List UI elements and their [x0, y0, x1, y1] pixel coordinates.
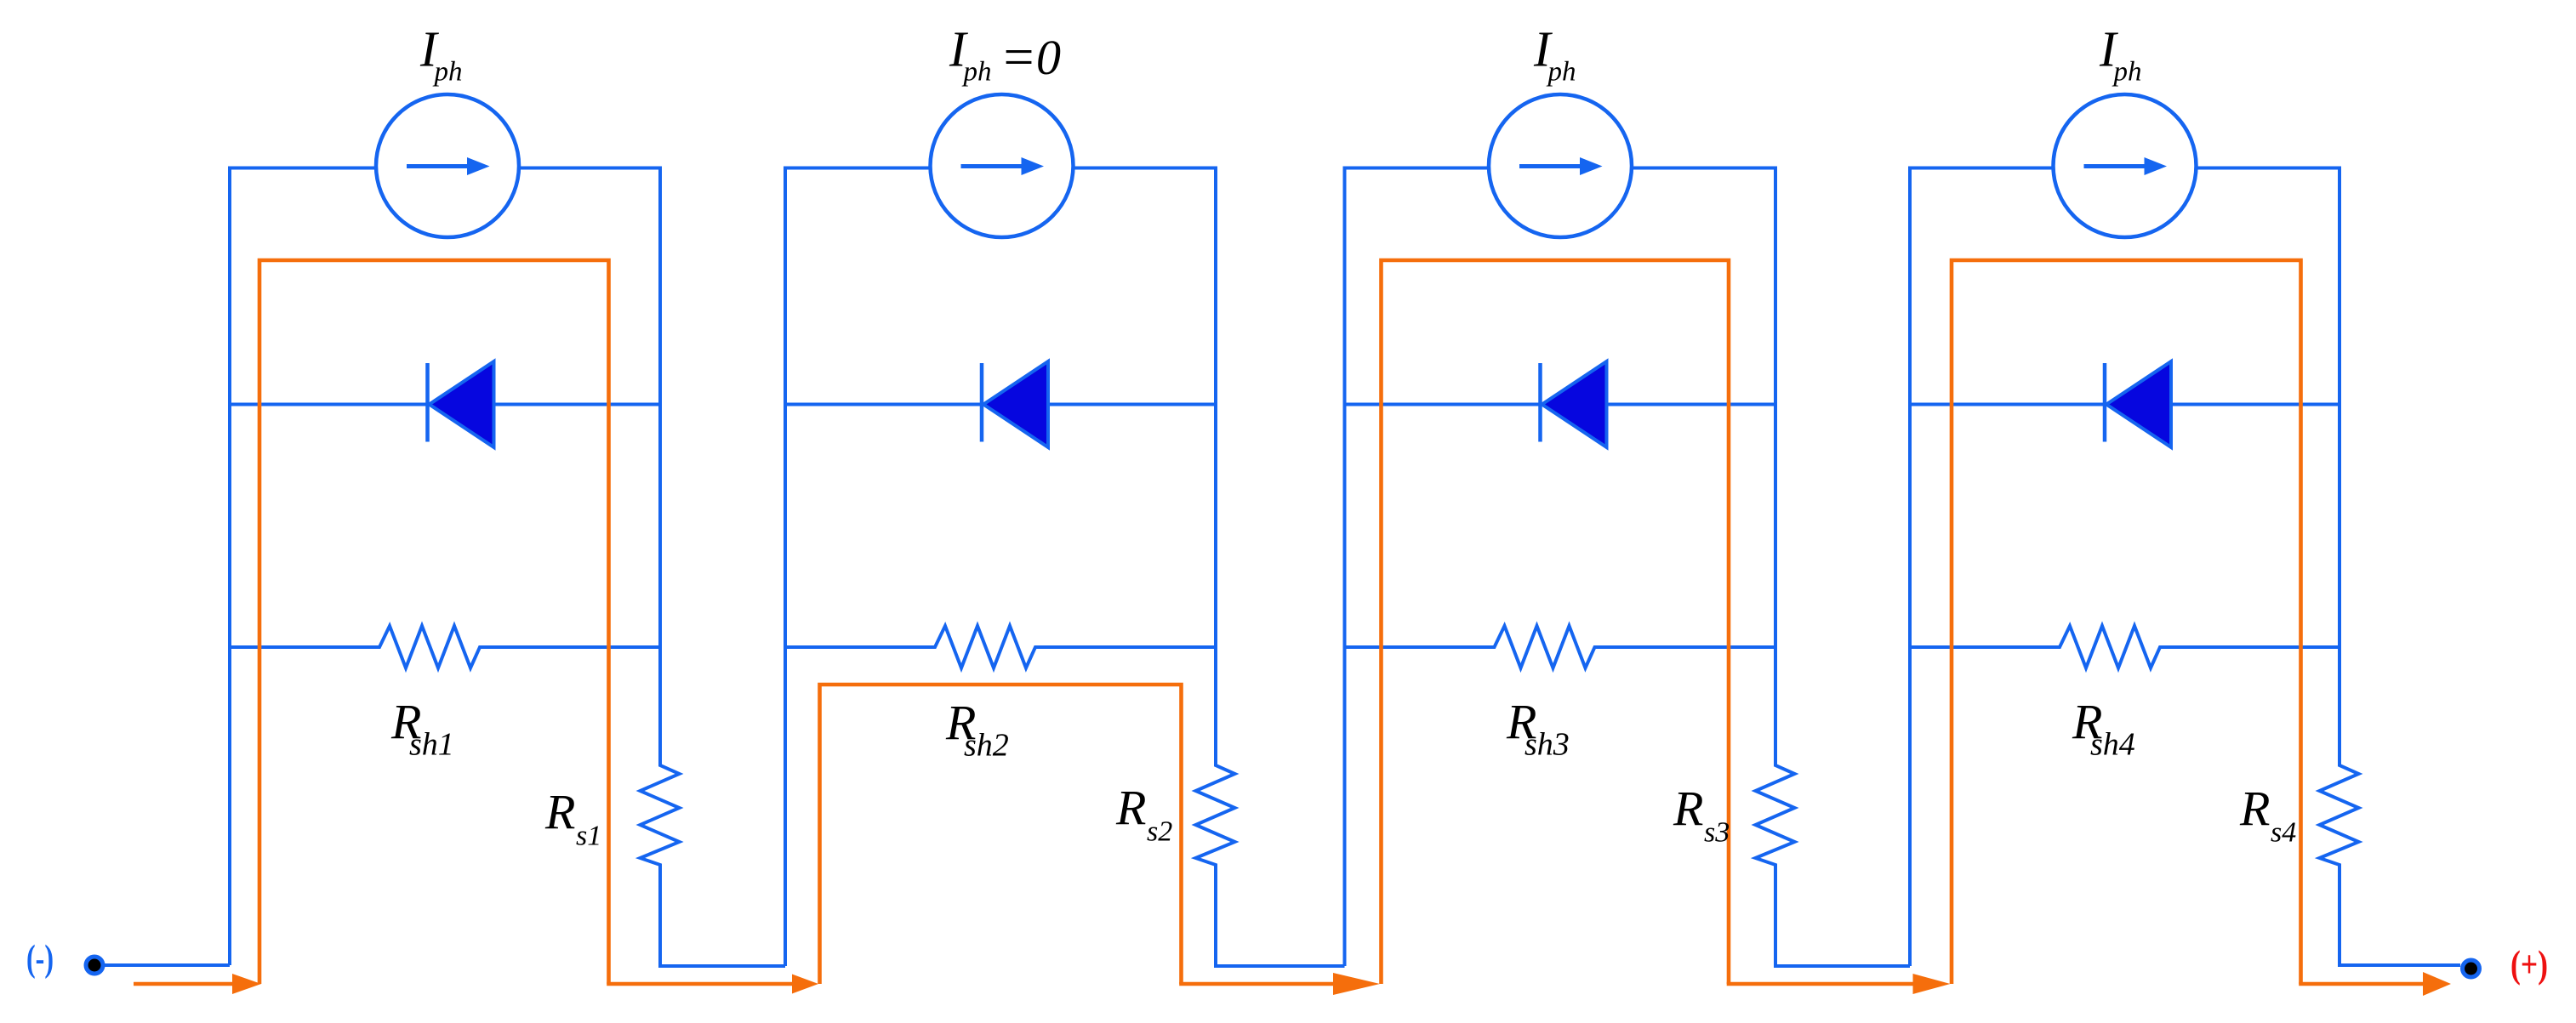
svg-text:=: =: [1000, 26, 1036, 87]
svg-text:R: R: [1115, 781, 1146, 836]
svg-text:R: R: [544, 785, 575, 840]
svg-text:(-): (-): [26, 937, 54, 979]
svg-text:ph: ph: [962, 57, 992, 88]
svg-text:s1: s1: [576, 821, 601, 852]
svg-text:(+): (+): [2510, 943, 2548, 986]
svg-text:ph: ph: [433, 57, 463, 88]
svg-text:R: R: [1673, 781, 1703, 837]
svg-text:R: R: [2239, 781, 2270, 837]
svg-text:s4: s4: [2271, 817, 2296, 849]
svg-text:sh2: sh2: [964, 728, 1009, 764]
svg-text:sh1: sh1: [409, 727, 454, 763]
svg-text:sh4: sh4: [2090, 727, 2135, 763]
svg-text:ph: ph: [2112, 57, 2142, 88]
svg-text:s2: s2: [1147, 816, 1172, 848]
svg-text:0: 0: [1036, 30, 1061, 85]
svg-text:sh3: sh3: [1525, 727, 1570, 763]
svg-text:s3: s3: [1704, 817, 1730, 849]
svg-text:ph: ph: [1547, 57, 1576, 88]
